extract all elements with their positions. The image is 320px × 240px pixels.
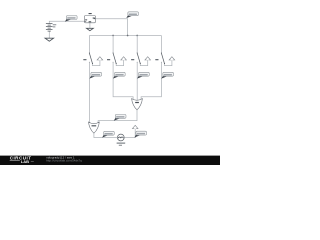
svg-text:http://circuitlab.com/54ds7q: http://circuitlab.com/54ds7q (46, 159, 82, 163)
svg-text:LAB: LAB (21, 159, 29, 164)
